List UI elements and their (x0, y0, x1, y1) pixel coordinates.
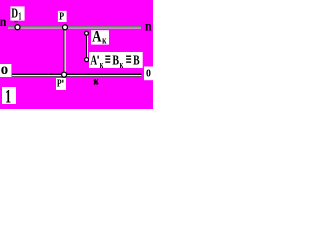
label box A'k = Bk = B (89, 52, 143, 71)
background (0, 0, 153, 109)
svg-text:o: o (146, 64, 151, 80)
svg-text:к: к (100, 59, 104, 71)
svg-text:к: к (102, 36, 107, 47)
svg-text:D: D (11, 5, 18, 20)
label o (right end of line o) (144, 64, 153, 80)
label box Ak (91, 28, 109, 46)
svg-text:o: o (1, 61, 8, 78)
wire: line n (top horizontal) (8, 26, 141, 29)
svg-text:1: 1 (5, 86, 11, 107)
node P (on line n) (63, 25, 68, 30)
node A'k (bottom of segment) (85, 58, 89, 62)
node Ak (top of segment) (85, 31, 89, 35)
node P' (on line o) (62, 72, 67, 77)
wire: segment P-P' (vertical) (63, 28, 66, 74)
node D1 (point on line n) (15, 25, 20, 30)
svg-text:A: A (92, 28, 101, 45)
svg-text:A: A (90, 53, 97, 68)
label box P' (56, 78, 66, 91)
svg-text:к: к (120, 59, 124, 71)
svg-text:P: P (59, 11, 64, 23)
svg-text:n: n (145, 18, 152, 33)
svg-text:B: B (133, 53, 140, 68)
svg-text:B: B (112, 53, 119, 68)
label box 1 (page number) (2, 86, 16, 107)
tick (selection mark under D1 box) (14, 21, 18, 22)
label box P (58, 11, 67, 23)
wire: segment Ak-A'k (vertical) (85, 35, 88, 58)
svg-text:P: P (57, 78, 62, 90)
wire: line o (bottom horizontal) (12, 74, 141, 78)
svg-text:n: n (0, 14, 7, 29)
svg-text:к: к (93, 76, 99, 88)
label o (left end of line o) (0, 61, 11, 78)
label box D1 (10, 5, 24, 22)
svg-text:1: 1 (18, 11, 21, 22)
